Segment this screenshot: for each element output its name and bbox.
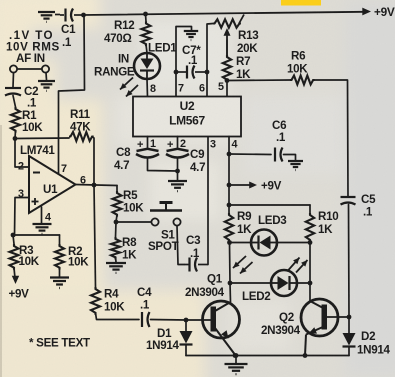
ground (op-amp pin 4) [33,224,52,234]
yellow highlight mark [281,0,321,6]
label RANGE [94,66,135,79]
pin 1 stub [147,137,149,150]
wire R5 to R8 node [116,215,117,222]
label SPOT [148,240,179,253]
ground (C8/C9) [168,181,187,191]
wire R6 to C5 [313,80,348,196]
resistor R7 [223,55,231,82]
wire LED3 node down [229,243,232,284]
resistor R5 [113,191,122,217]
wire S1 to C3 [177,226,184,265]
label C7 [182,44,201,57]
wire pin 4 to ground [41,207,43,223]
ground (input return) [38,81,55,91]
capacitor C5 [341,197,356,205]
wire pin 5 [226,81,228,98]
label D2 [361,330,375,343]
wire R3 to +9V arrow [14,268,15,278]
wire R12 to LED1 [146,45,147,54]
wire R9 to LED3 node [228,240,231,243]
capacitor C3 [184,258,208,272]
label R11 value [70,121,91,134]
pin 3 label (bottom) [210,139,216,151]
capacitor C1 [60,9,83,22]
label R13 [238,29,259,42]
pin 2 label [180,138,186,150]
Q1 emitter arrow [221,330,228,338]
wire LED2 right [297,282,310,284]
wire C6 to ground [284,155,296,161]
label R7 [236,55,250,68]
capacitor C7 [176,66,207,79]
wire ground stem [235,356,237,364]
wire R5 top stub [116,186,118,192]
node +9V tap [227,183,232,188]
terminal AF input hot [10,65,49,72]
label R1 [22,109,37,122]
label C6 value [276,131,286,144]
label R9 [237,210,252,223]
node LED rail left [227,203,232,208]
wire R1 to node [14,131,17,138]
capacitor C8 [136,149,159,158]
wire LED1 to pin 8 [146,79,149,97]
pin 4 label (bottom) [232,139,238,151]
wire node to S1 [116,221,151,223]
label Q2 [279,311,294,324]
diode D1 [180,320,193,356]
label LED3 [258,214,287,227]
wire LED3 right [277,242,310,244]
label LED1 [148,42,177,55]
arrow R3 +9V [12,276,19,284]
label R1 value [22,121,43,134]
wire C3 to pin 3 [207,137,209,265]
label R3 value [19,255,40,268]
label Q1 [207,273,223,286]
label C8 [116,146,131,159]
wire input gnd stub [45,73,48,80]
node LED3 right [308,240,313,245]
label LED2 [242,290,270,303]
wire op-amp output [76,185,118,186]
wire output down to R4 [94,185,96,287]
wire pin 3 to divider [15,198,30,237]
label R8 [122,236,137,249]
label +9V (middle) [261,180,282,193]
wire node to Q1 base [186,319,211,321]
node Q1 emitter rail [233,353,238,358]
label R5 [123,189,138,202]
wire R8 stub [115,222,118,237]
diode D2 [343,317,356,356]
wire R3 stub [13,235,14,244]
label U1 [43,183,58,196]
label D1 type [146,339,180,352]
label R2 [68,245,82,258]
wire ground rail [186,355,349,357]
label LM567 [169,114,205,128]
+9V top right arrow [362,8,371,16]
node R7/pin5 [225,78,230,83]
wire R10 to LED3 node [309,240,311,243]
resistor R9 [225,213,233,242]
transistor Q1 [203,301,240,354]
potentiometer R13 [213,15,244,28]
wire node to R11 [15,137,69,140]
node R12 top [143,12,148,17]
label C9 [190,148,205,161]
node D1 junction [184,318,189,323]
label C1 [61,23,76,36]
label .1V TO [9,29,54,42]
wire R11 to output [92,137,94,186]
label R3 [19,244,34,257]
label R8 value [122,249,137,262]
wire R7 to R6 [227,79,290,82]
node C6 tap [227,152,232,157]
resistor R10 [306,213,314,242]
node C7 left [174,70,179,75]
wire R12 stub [145,14,148,22]
label R4 [104,288,119,301]
wire pin 7 up [176,27,192,98]
resistor R11 [69,132,94,141]
label SEE TEXT [29,337,90,350]
label AF IN [16,52,45,65]
arrow +9V mid [249,182,257,189]
wire Q1 emitter to rail [234,354,237,356]
wire R4 to C4 [96,313,140,320]
node pin2 junction [13,136,18,141]
pin 2 stub [177,137,179,150]
wire input to C2 [12,73,15,87]
op-amp plus sign [32,198,39,205]
node R3 junction [11,233,16,238]
pin 4 label [45,212,51,224]
label R11 [70,108,91,121]
resistor R8 [111,237,120,259]
C8 plus sign [137,139,143,151]
wire C8 bottom [148,158,178,171]
label IN [118,53,129,66]
label +9V (lower left) [9,288,30,301]
node output junction [92,183,97,188]
label Q1 type [185,286,225,299]
node ground rail tap [234,353,239,358]
node C8/C9 junction [175,169,180,174]
wire R2 stub [59,235,61,244]
transistor Q2 [301,299,338,356]
label R9 value [237,223,252,236]
label R10 value [318,223,333,236]
ground (R8) [106,263,126,273]
label R2 value [68,256,89,269]
label R5 value [123,202,144,215]
wire pin 4 down [228,137,230,206]
pin 5 label (U2) [218,81,224,93]
label C1 value [62,36,72,49]
wire C2 to R1 [13,96,16,108]
resistor R1 [11,107,20,133]
pin 7 label [61,163,67,175]
label C5 value [363,206,373,219]
resistor R2 [55,244,64,270]
node C7 right [205,70,210,75]
LED2 receive arrows [288,258,308,273]
IC U2 LM567 [133,97,241,137]
pin 2 label [18,161,24,173]
resistor R6 [290,76,315,85]
pin 6 label (U2) [199,83,205,95]
label R13 value [237,42,258,55]
label C2 [24,85,38,98]
capacitor C4 [142,312,150,327]
wire R2 to ground [59,268,61,277]
LED1 emission arrows [120,78,138,97]
capacitor C6 [275,148,283,162]
label C3 value [190,247,200,260]
wire collector Q1 [229,283,232,302]
label S1 [161,229,175,242]
wire R8 to ground [115,257,118,262]
wire Q2 base [327,316,349,318]
wire R10 stub [309,205,311,213]
capacitor C2 [5,88,21,96]
wire R9 stub [228,205,230,213]
op-amp U1 [29,156,76,213]
label C9 value [190,161,205,174]
node C1/+9V junction [81,13,86,18]
switch S1 [150,203,182,226]
LED3 emission arrows [233,256,253,274]
label R7 value [236,68,251,81]
wire LED2 left [230,282,271,284]
label +9V (top right) [374,5,395,19]
wire +9V to op-amp pin 7 [59,15,85,174]
Q2 emitter arrow [309,327,318,333]
label R12 value [104,32,131,45]
node R5/R8/S1 [114,220,119,225]
wire LED3 left [230,242,252,244]
wire divider rail [13,234,60,236]
label R6 value [287,63,308,76]
ground (main) [225,364,248,374]
LED LED1 [134,53,160,79]
R13 wiper arrow [224,28,231,55]
label Q2 type [261,324,301,337]
ground (C7 top) [184,31,198,40]
label C7 value [188,54,198,67]
node Q2 emitter rail [303,353,308,358]
label D2 type [357,344,391,357]
pin 8 label [150,83,156,95]
capacitor C9 [166,149,189,158]
label 10V RMS [6,41,60,54]
node Q2 base junction [347,315,352,320]
wire C5 to Q2 base node [348,205,351,318]
label C6 [272,119,287,132]
label C3 [186,234,201,247]
label C8 value [114,159,129,172]
label D1 [157,327,172,340]
node LED3 left [227,240,232,245]
wire collector Q2 [309,283,311,301]
label R10 [318,210,338,223]
label C2 value [27,97,37,110]
C9 plus sign [167,139,173,151]
ground (R2) [50,278,69,289]
wire R7 top [226,40,228,55]
wire node to pin 2 [15,139,29,168]
label U2 [180,99,195,113]
label C5 [361,193,376,206]
pin 6 label [80,175,86,187]
pin 3 label [18,188,24,200]
label C4 [137,286,152,299]
ground (C1 top left) [38,12,60,22]
wire C6 feed [229,153,271,156]
label LM741 [20,144,55,157]
LED LED2 [271,270,297,296]
node LED2 right [308,281,313,286]
LED LED3 [251,230,277,256]
wire C4 to D1 node [151,319,187,322]
wire +9V stub [229,184,250,186]
pin 1 label [150,138,156,150]
wire pin 6 up [207,24,213,98]
resistor R3 [10,244,19,270]
wire +9V top rail [83,12,364,15]
op-amp minus sign [33,172,40,174]
label C4 value [140,299,150,312]
node LED2 left [228,281,233,286]
resistor R12 [142,22,151,47]
label R4 value [104,301,125,314]
wire R10 node down [309,243,311,284]
label R12 [114,19,134,32]
ground (C6) [288,161,303,170]
wire C9 to ground [177,158,179,180]
resistor R4 [91,287,100,315]
pin 7 label (U2) [178,83,184,95]
label R6 [291,50,306,63]
wire LED supply rail [229,204,310,206]
